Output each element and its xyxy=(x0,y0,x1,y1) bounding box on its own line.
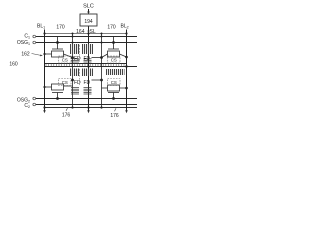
svg-text:176: 176 xyxy=(62,113,71,119)
svg-text:194: 194 xyxy=(84,19,93,25)
svg-text:CS: CS xyxy=(111,80,117,85)
svg-text:176: 176 xyxy=(110,113,119,119)
svg-text:CS: CS xyxy=(62,80,68,85)
svg-text:FD: FD xyxy=(84,56,91,62)
svg-text:FD: FD xyxy=(74,80,81,86)
svg-text:SL: SL xyxy=(90,29,96,35)
svg-text:FD: FD xyxy=(74,56,81,62)
svg-text:160: 160 xyxy=(9,62,18,68)
svg-text:164: 164 xyxy=(76,29,85,35)
svg-text:FD: FD xyxy=(84,80,91,86)
svg-text:170: 170 xyxy=(107,25,116,31)
svg-text:SLC: SLC xyxy=(83,4,94,10)
svg-text:162: 162 xyxy=(21,52,30,58)
svg-text:CS: CS xyxy=(111,57,117,62)
svg-text:CS: CS xyxy=(62,57,68,62)
svg-text:170: 170 xyxy=(56,25,65,31)
